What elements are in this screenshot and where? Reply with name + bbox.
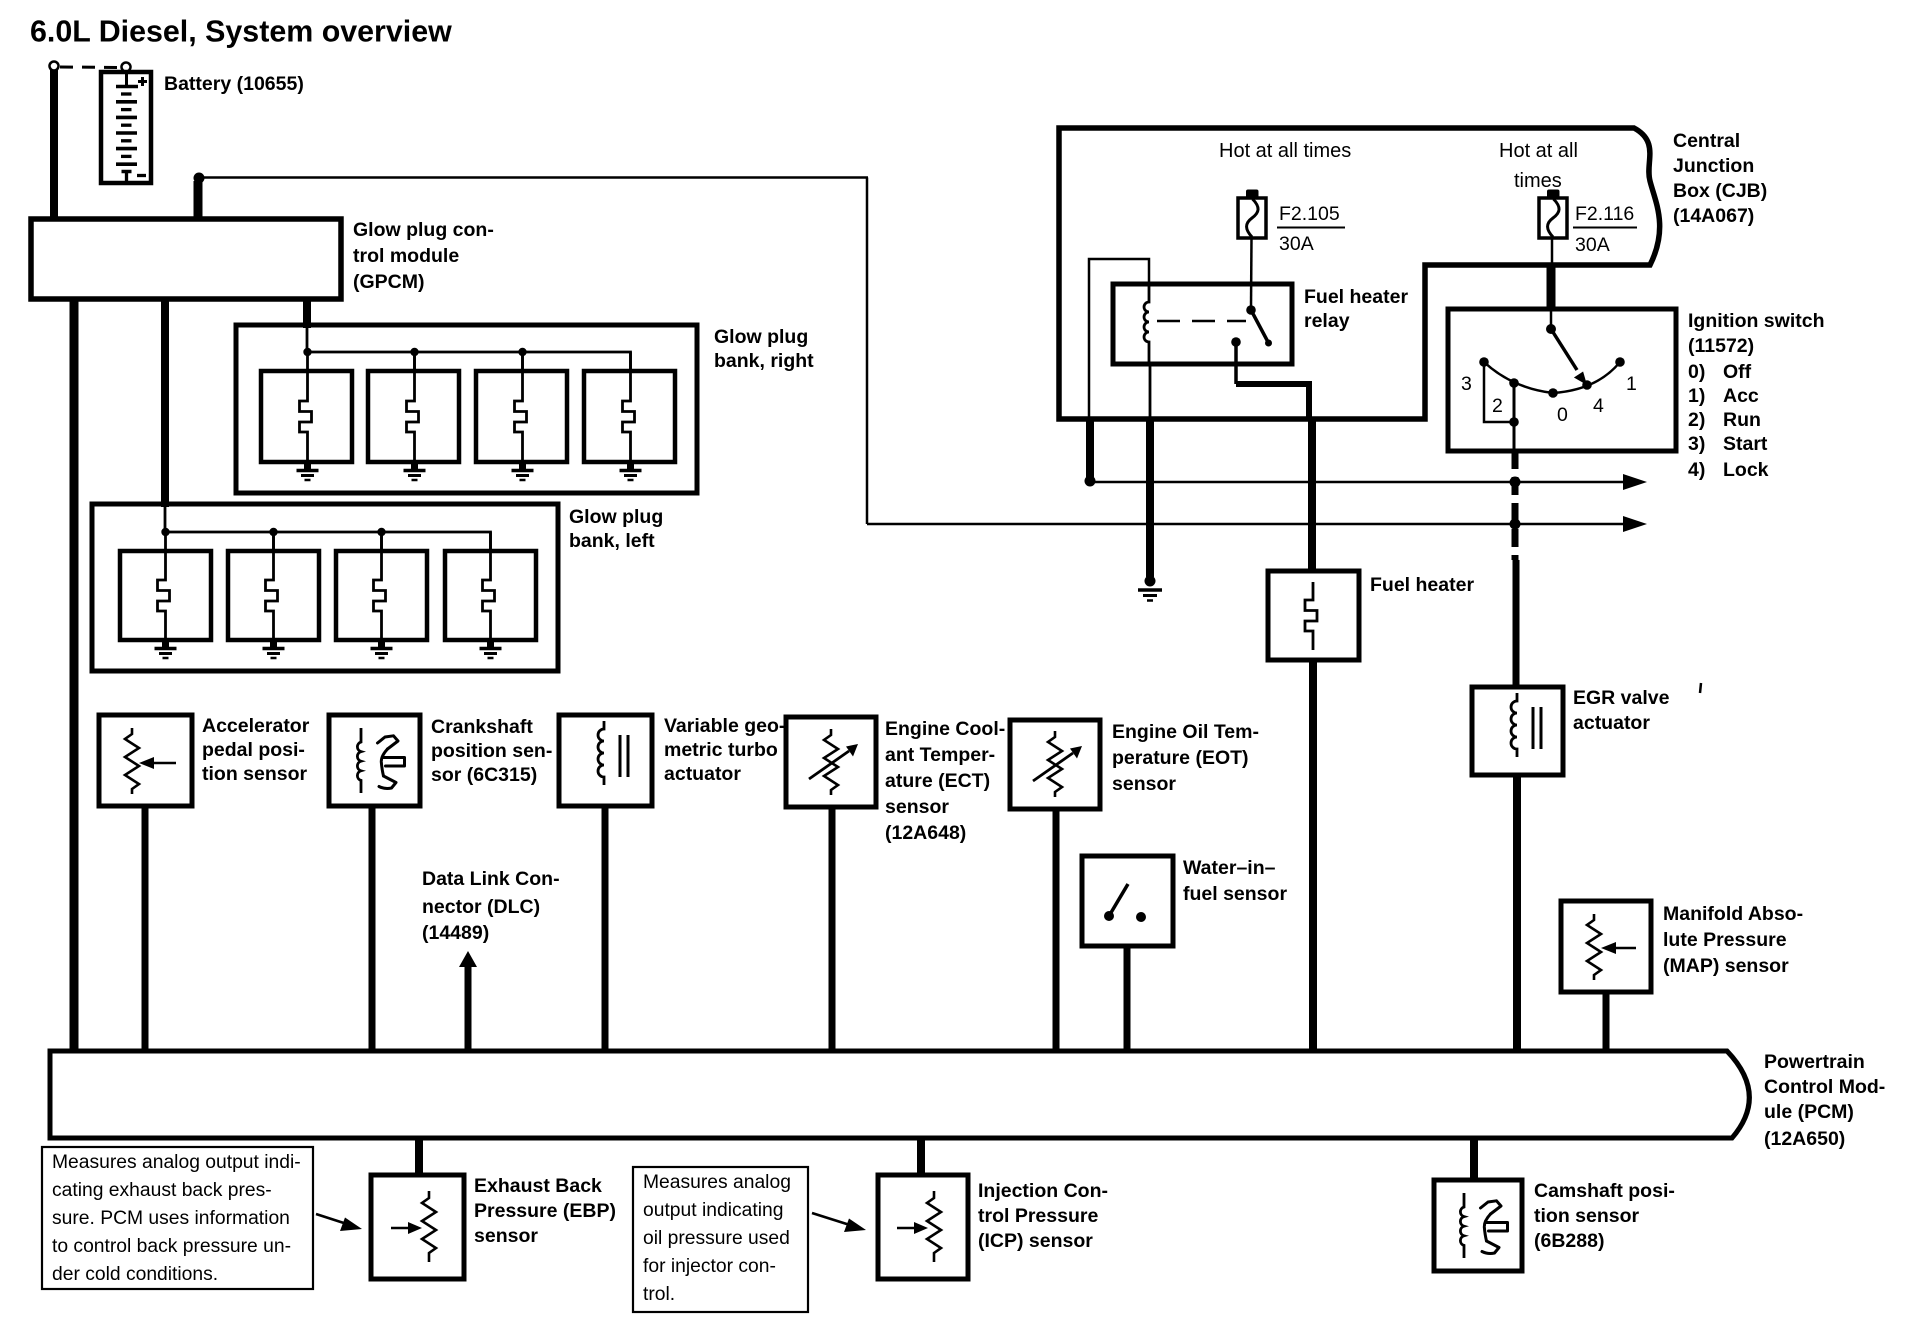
svg-text:Hot at all times: Hot at all times xyxy=(1219,140,1351,162)
svg-text:Off: Off xyxy=(1723,361,1752,383)
ground below glow plug right bank 1 xyxy=(297,462,319,480)
svg-text:Lock: Lock xyxy=(1723,459,1769,481)
data link connector stub xyxy=(459,951,477,1050)
svg-text:(MAP) sensor: (MAP) sensor xyxy=(1663,955,1789,977)
svg-text:Ignition switch: Ignition switch xyxy=(1688,310,1825,332)
relay switch pivot xyxy=(1246,305,1256,315)
wire F2.116 to ignition switch xyxy=(1547,265,1556,326)
glow plug control module GPCM xyxy=(31,219,341,299)
stray tick mark xyxy=(1700,683,1701,693)
svg-text:4): 4) xyxy=(1688,459,1705,481)
svg-text:oil pressure used: oil pressure used xyxy=(643,1228,790,1249)
wire F2.105 to relay xyxy=(1250,238,1253,308)
svg-text:Water–in–: Water–in– xyxy=(1183,857,1276,879)
variable geometric turbo actuator box xyxy=(559,715,652,806)
node run feed junction xyxy=(1085,476,1096,487)
svg-text:for injector con-: for injector con- xyxy=(643,1256,776,1277)
label ignition switch xyxy=(1688,310,1825,357)
label fuse F2.105 xyxy=(1277,203,1345,255)
svg-text:6.0L Diesel, System overview: 6.0L Diesel, System overview xyxy=(30,15,452,49)
wire contact 3 leg xyxy=(1484,366,1511,422)
wire right bank feed xyxy=(306,328,309,352)
svg-text:(14489): (14489) xyxy=(422,922,489,944)
svg-text:relay: relay xyxy=(1304,310,1350,332)
svg-text:(ICP) sensor: (ICP) sensor xyxy=(978,1230,1093,1252)
glow plug left bank 4 xyxy=(445,532,536,640)
svg-text:ule (PCM): ule (PCM) xyxy=(1764,1101,1854,1123)
wire water-in-fuel to PCM xyxy=(1124,944,1131,1050)
wire dashed battery positive link xyxy=(60,66,120,70)
svg-text:Hot at all: Hot at all xyxy=(1499,140,1578,162)
node battery positive terminal xyxy=(122,63,131,72)
svg-text:(12A648): (12A648) xyxy=(885,822,966,844)
svg-text:F2.116: F2.116 xyxy=(1575,203,1634,225)
wire relay output to fuel heater drop xyxy=(1236,344,1309,420)
crankshaft position sensor box (6C315) xyxy=(329,715,420,806)
label camshaft position sensor xyxy=(1534,1180,1675,1252)
fuel heater relay box xyxy=(1113,284,1292,364)
label fuel heater xyxy=(1370,574,1474,596)
relay output contact xyxy=(1231,337,1241,347)
ignition contact 0 xyxy=(1548,388,1558,398)
wire left bank feed xyxy=(164,507,167,532)
svg-text:trol module: trol module xyxy=(353,245,459,267)
wire fuel heater to PCM xyxy=(1309,660,1317,1050)
accelerator pedal position sensor box xyxy=(99,715,192,806)
svg-text:Pressure (EBP): Pressure (EBP) xyxy=(474,1200,616,1222)
ground for relay coil xyxy=(1138,576,1162,601)
wire ignition switch dashed drop xyxy=(1512,451,1519,560)
svg-text:Glow plug: Glow plug xyxy=(714,326,808,348)
wire B+ feed horizontal run xyxy=(204,176,868,179)
svg-text:0): 0) xyxy=(1688,361,1705,383)
wire accelerator to PCM xyxy=(142,804,149,1050)
ignition contact 2 xyxy=(1509,378,1519,388)
relay coil xyxy=(1144,284,1149,364)
label CJB xyxy=(1673,130,1767,227)
water-in-fuel sensor box xyxy=(1082,856,1173,946)
ground below glow plug left bank 3 xyxy=(371,640,393,658)
wire coil loop below CJB xyxy=(1086,419,1094,478)
svg-text:actuator: actuator xyxy=(1573,712,1650,734)
ignition contact 3 xyxy=(1479,357,1489,367)
label ECT sensor xyxy=(885,718,1005,844)
wire EGR to PCM xyxy=(1513,775,1521,1050)
node battery feed terminal xyxy=(50,62,59,71)
svg-text:position sen-: position sen- xyxy=(431,740,552,762)
manifold absolute pressure MAP sensor box xyxy=(1561,901,1651,992)
svg-text:fuel sensor: fuel sensor xyxy=(1183,883,1287,905)
svg-text:nector (DLC): nector (DLC) xyxy=(422,896,540,918)
svg-text:actuator: actuator xyxy=(664,763,741,785)
label hot at all times left xyxy=(1219,140,1351,162)
svg-text:Run: Run xyxy=(1723,409,1761,431)
glow plug bank left enclosure xyxy=(92,504,558,671)
svg-text:pedal posi-: pedal posi- xyxy=(202,739,305,761)
label accelerator pedal position sensor xyxy=(202,715,310,785)
wire ignition drop to EGR xyxy=(1513,560,1520,689)
svg-text:Central: Central xyxy=(1673,130,1740,152)
svg-text:EGR valve: EGR valve xyxy=(1573,687,1670,709)
svg-text:Measures analog: Measures analog xyxy=(643,1172,791,1193)
ignition switch box (11572) xyxy=(1448,309,1676,451)
relay dashed actuation link xyxy=(1157,320,1246,323)
glow plug left bank 1 xyxy=(120,528,211,640)
svg-text:30A: 30A xyxy=(1575,234,1610,256)
wire EOT to PCM xyxy=(1053,807,1060,1050)
central junction box CJB (14A067) outline xyxy=(1059,128,1660,419)
label fuse F2.116 xyxy=(1573,203,1637,256)
wire relay coil top loop xyxy=(1089,259,1149,419)
svg-text:0: 0 xyxy=(1557,404,1568,426)
note box exhaust back pressure xyxy=(42,1147,313,1289)
label glow plug bank left xyxy=(569,506,663,552)
svg-text:2): 2) xyxy=(1688,409,1705,431)
svg-text:(14A067): (14A067) xyxy=(1673,205,1754,227)
svg-text:ant Temper-: ant Temper- xyxy=(885,744,995,766)
wire battery feed to GPCM xyxy=(50,70,58,221)
label EBP sensor xyxy=(474,1175,616,1247)
svg-text:Data Link Con-: Data Link Con- xyxy=(422,868,560,890)
glow plug bank right enclosure xyxy=(236,325,697,493)
wire GPCM to left glow bank xyxy=(161,297,169,507)
node B+ junction xyxy=(194,173,205,184)
camshaft position sensor box (6B288) xyxy=(1434,1180,1522,1271)
svg-text:3: 3 xyxy=(1461,373,1472,395)
ground below glow plug left bank 1 xyxy=(155,640,177,658)
label water-in-fuel sensor xyxy=(1183,857,1287,905)
svg-text:sensor: sensor xyxy=(474,1225,538,1247)
svg-text:to control back pressure un-: to control back pressure un- xyxy=(52,1236,291,1257)
label MAP sensor xyxy=(1663,903,1803,977)
engine coolant temperature ECT sensor box (12A648) xyxy=(786,717,876,807)
label variable geometric turbo actuator xyxy=(664,715,785,785)
ground below glow plug right bank 3 xyxy=(512,462,534,480)
fuel heater box xyxy=(1268,571,1359,660)
svg-text:sensor: sensor xyxy=(1112,773,1176,795)
svg-text:3): 3) xyxy=(1688,433,1705,455)
svg-text:1: 1 xyxy=(1626,373,1637,395)
EGR valve actuator box xyxy=(1472,687,1563,775)
ignition switch contact arc xyxy=(1484,362,1620,393)
svg-text:trol.: trol. xyxy=(643,1284,675,1305)
label glow plug bank right xyxy=(714,326,814,372)
svg-text:Measures analog output indi-: Measures analog output indi- xyxy=(52,1152,301,1173)
svg-text:Fuel heater: Fuel heater xyxy=(1370,574,1474,596)
wire MAP to PCM xyxy=(1603,992,1610,1050)
svg-text:Control Mod-: Control Mod- xyxy=(1764,1076,1885,1098)
wire F2.116 to CJB edge xyxy=(1551,238,1554,265)
glow plug right bank 1 xyxy=(261,348,352,462)
ignition switch blade with arrowhead xyxy=(1551,329,1587,385)
note box injection control pressure xyxy=(633,1167,808,1312)
svg-text:lute Pressure: lute Pressure xyxy=(1663,929,1787,951)
node contact 2 leg junction xyxy=(1509,417,1519,427)
engine oil temperature EOT sensor box xyxy=(1010,720,1100,809)
svg-text:Accelerator: Accelerator xyxy=(202,715,310,737)
wire B+ feed lower run with arrow xyxy=(867,516,1647,532)
svg-text:(6B288): (6B288) xyxy=(1534,1230,1604,1252)
svg-text:Variable geo-: Variable geo- xyxy=(664,715,785,737)
battery B1 (10655) xyxy=(101,72,151,183)
svg-text:Powertrain: Powertrain xyxy=(1764,1051,1865,1073)
svg-text:(12A650): (12A650) xyxy=(1764,1128,1845,1150)
fuse F2.116 30A xyxy=(1539,190,1567,239)
wire left bank bus xyxy=(165,532,491,551)
wire turbo actuator to PCM xyxy=(602,804,609,1050)
svg-text:1): 1) xyxy=(1688,385,1705,407)
svg-text:bank, left: bank, left xyxy=(569,530,655,552)
wire ECT to PCM xyxy=(829,805,836,1050)
label GPCM xyxy=(353,219,494,293)
wire PCM to camshaft sensor xyxy=(1470,1138,1478,1182)
ignition switch pivot xyxy=(1546,324,1556,334)
wire CJB to fuel heater xyxy=(1308,420,1316,573)
svg-text:Crankshaft: Crankshaft xyxy=(431,716,533,738)
powertrain control module PCM (12A650) xyxy=(50,1051,1749,1138)
svg-text:Exhaust Back: Exhaust Back xyxy=(474,1175,602,1197)
label switch position numbers xyxy=(1461,373,1637,426)
svg-text:30A: 30A xyxy=(1279,233,1314,255)
svg-text:Camshaft posi-: Camshaft posi- xyxy=(1534,1180,1675,1202)
label ICP sensor xyxy=(978,1180,1108,1252)
wire crankshaft sensor to PCM xyxy=(369,804,376,1050)
svg-text:perature (EOT): perature (EOT) xyxy=(1112,747,1249,769)
wire GPCM to right glow bank xyxy=(303,297,311,328)
ground below glow plug right bank 4 xyxy=(620,462,642,480)
svg-text:sensor: sensor xyxy=(885,796,949,818)
svg-text:Start: Start xyxy=(1723,433,1768,455)
svg-text:Junction: Junction xyxy=(1673,155,1754,177)
svg-text:(11572): (11572) xyxy=(1688,335,1754,357)
svg-text:trol Pressure: trol Pressure xyxy=(978,1205,1098,1227)
label PCM xyxy=(1764,1051,1885,1150)
glow plug right bank 4 xyxy=(584,352,675,462)
svg-text:Engine Cool-: Engine Cool- xyxy=(885,718,1005,740)
title xyxy=(30,15,452,49)
svg-text:Battery (10655): Battery (10655) xyxy=(164,73,304,95)
svg-text:Injection Con-: Injection Con- xyxy=(978,1180,1108,1202)
glow plug left bank 2 xyxy=(228,528,319,640)
fuse F2.105 30A xyxy=(1238,190,1266,239)
glow plug right bank 2 xyxy=(368,348,459,462)
svg-text:(GPCM): (GPCM) xyxy=(353,271,425,293)
ignition contact 4 xyxy=(1582,380,1592,390)
wire B+ feed vertical drop xyxy=(866,178,869,525)
svg-text:Glow plug con-: Glow plug con- xyxy=(353,219,494,241)
wire relay coil ground drop xyxy=(1149,364,1152,577)
svg-text:Acc: Acc xyxy=(1723,385,1759,407)
arrow note to ICP sensor xyxy=(812,1213,866,1232)
wire B+ junction to GPCM xyxy=(194,181,203,221)
label EGR valve actuator xyxy=(1573,687,1670,734)
ignition contact 1 xyxy=(1615,357,1625,367)
wire right bank bus xyxy=(307,352,631,371)
svg-text:F2.105: F2.105 xyxy=(1279,203,1340,225)
node ignition drop crossing run feed xyxy=(1510,477,1521,488)
wire PCM to ICP sensor xyxy=(917,1138,925,1177)
glow plug left bank 3 xyxy=(336,528,427,640)
svg-text:Box (CJB): Box (CJB) xyxy=(1673,180,1767,202)
wire contact 2 leg xyxy=(1513,387,1516,449)
svg-text:sure. PCM uses information: sure. PCM uses information xyxy=(52,1208,290,1229)
svg-text:tion sensor: tion sensor xyxy=(202,763,308,785)
svg-text:tion sensor: tion sensor xyxy=(1534,1205,1640,1227)
svg-text:times: times xyxy=(1514,170,1562,192)
label crankshaft position sensor xyxy=(431,716,552,786)
label hot at all times right xyxy=(1499,140,1578,192)
ground below glow plug right bank 2 xyxy=(404,462,426,480)
svg-text:der cold conditions.: der cold conditions. xyxy=(52,1264,218,1285)
label EOT sensor xyxy=(1112,721,1259,795)
label ignition positions xyxy=(1688,361,1769,481)
label fuel heater relay xyxy=(1304,286,1408,332)
svg-text:bank, right: bank, right xyxy=(714,350,814,372)
svg-text:cating exhaust back pres-: cating exhaust back pres- xyxy=(52,1180,272,1201)
wire PCM to EBP sensor xyxy=(415,1138,423,1177)
svg-text:2: 2 xyxy=(1492,395,1503,417)
svg-text:ature (ECT): ature (ECT) xyxy=(885,770,990,792)
svg-text:sor (6C315): sor (6C315) xyxy=(431,764,537,786)
svg-text:Engine Oil Tem-: Engine Oil Tem- xyxy=(1112,721,1259,743)
label battery xyxy=(164,73,304,95)
exhaust back pressure EBP sensor box xyxy=(371,1175,464,1279)
arrow note to EBP sensor xyxy=(316,1214,362,1231)
wire GPCM to PCM left feed xyxy=(70,297,79,1050)
node ignition drop crossing B+ feed xyxy=(1510,519,1521,530)
wire run feed with arrow xyxy=(1095,474,1647,490)
ground below glow plug left bank 2 xyxy=(263,640,285,658)
svg-text:output indicating: output indicating xyxy=(643,1200,783,1221)
svg-text:4: 4 xyxy=(1593,395,1604,417)
svg-text:Fuel heater: Fuel heater xyxy=(1304,286,1408,308)
glow plug right bank 3 xyxy=(476,348,567,462)
injection control pressure ICP sensor box xyxy=(878,1175,968,1279)
svg-text:Glow plug: Glow plug xyxy=(569,506,663,528)
ground below glow plug left bank 4 xyxy=(480,640,502,658)
svg-text:metric turbo: metric turbo xyxy=(664,739,778,761)
label data link connector DLC (14489) xyxy=(422,868,560,944)
relay switch blade xyxy=(1251,310,1272,347)
svg-text:Manifold Abso-: Manifold Abso- xyxy=(1663,903,1803,925)
